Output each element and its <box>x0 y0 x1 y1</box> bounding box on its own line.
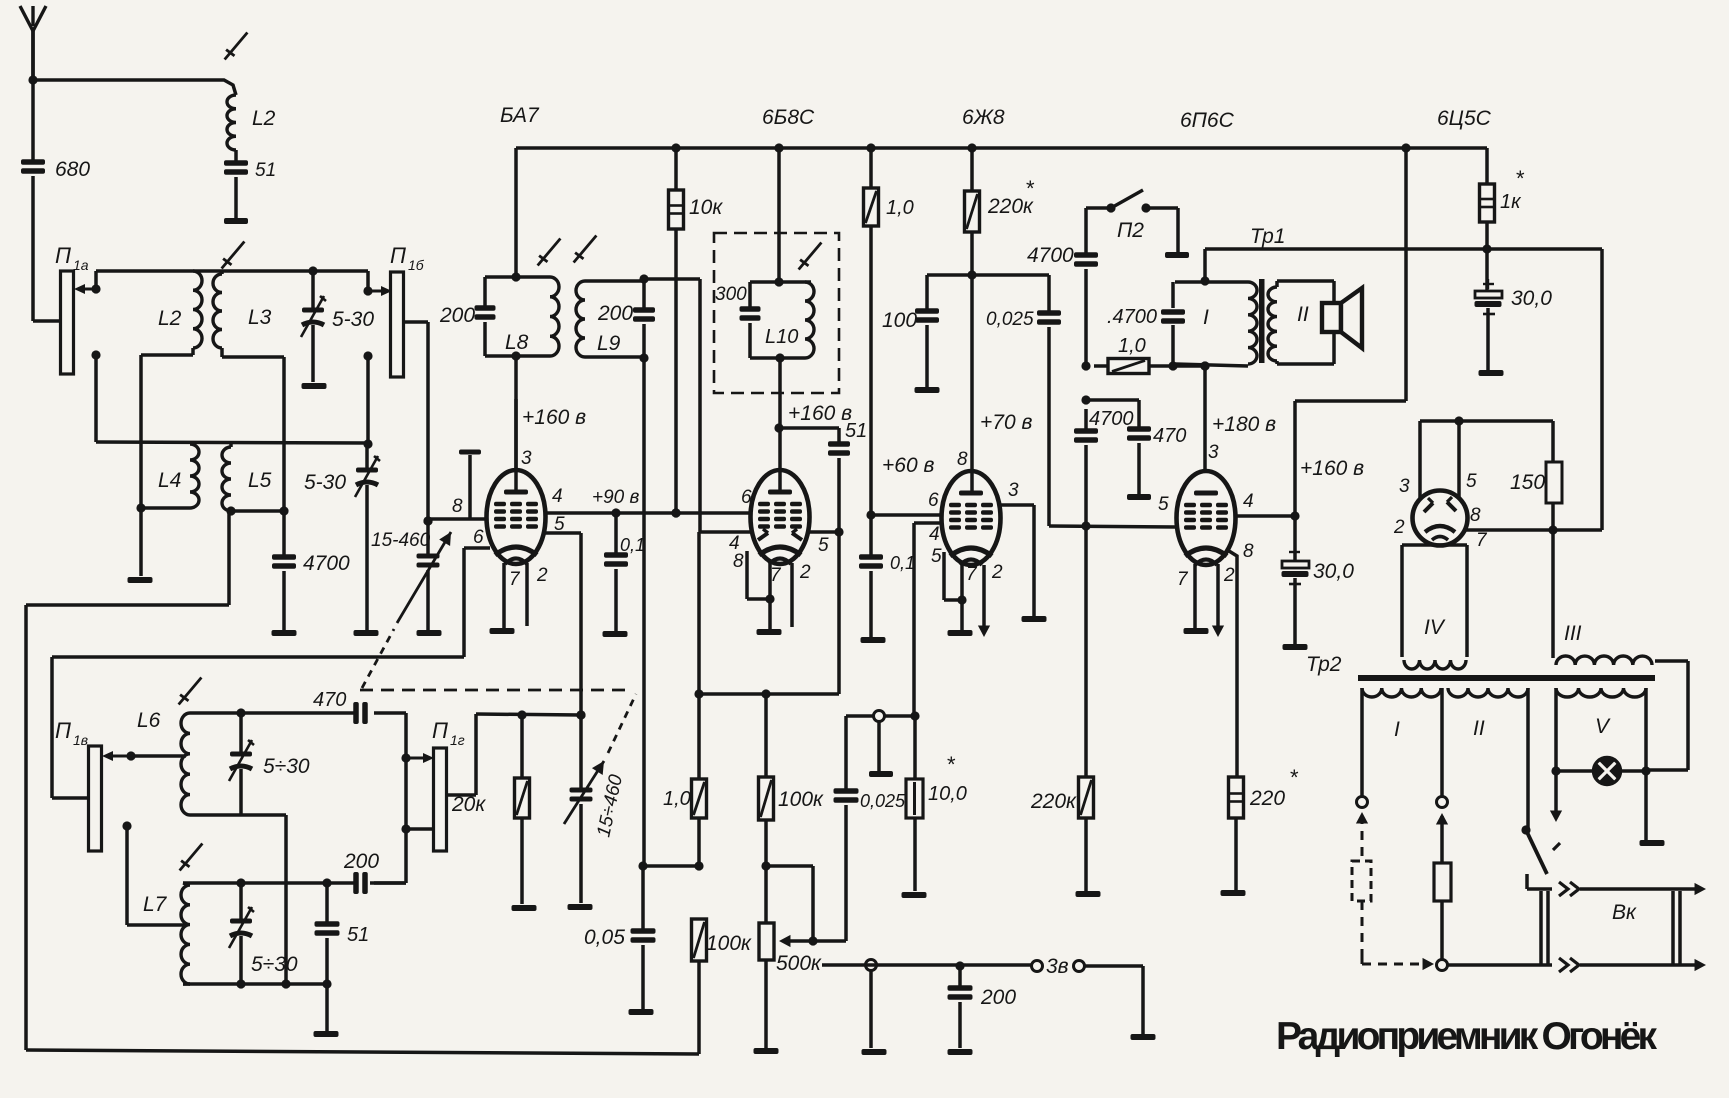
svg-text:100к: 100к <box>778 788 824 811</box>
svg-text:L10: L10 <box>765 326 798 348</box>
svg-text:L2: L2 <box>252 107 276 130</box>
svg-text:470: 470 <box>313 689 346 711</box>
svg-text:0,05: 0,05 <box>584 926 625 949</box>
svg-text:1б: 1б <box>408 257 425 273</box>
svg-text:8: 8 <box>1243 541 1254 562</box>
svg-text:*: * <box>947 752 956 777</box>
svg-text:+180 в: +180 в <box>1212 413 1276 436</box>
svg-text:5: 5 <box>818 535 829 556</box>
svg-text:1в: 1в <box>73 732 88 748</box>
svg-text:БА7: БА7 <box>500 104 540 127</box>
svg-text:V: V <box>1595 715 1611 738</box>
svg-text:L9: L9 <box>597 332 621 355</box>
svg-text:1,0: 1,0 <box>663 788 691 810</box>
svg-text:7: 7 <box>509 569 521 590</box>
svg-text:L8: L8 <box>505 331 529 354</box>
svg-text:10к: 10к <box>689 196 723 219</box>
svg-text:*: * <box>1516 166 1525 191</box>
svg-text:+60 в: +60 в <box>882 454 934 477</box>
svg-text:4700: 4700 <box>303 552 350 575</box>
svg-text:+160 в: +160 в <box>1300 457 1364 480</box>
svg-text:15÷460: 15÷460 <box>593 772 627 839</box>
svg-text:2: 2 <box>536 565 548 586</box>
svg-text:П: П <box>55 718 71 743</box>
svg-text:3: 3 <box>1399 476 1410 497</box>
svg-text:П2: П2 <box>1117 219 1144 242</box>
svg-text:20к: 20к <box>451 793 486 816</box>
svg-text:IV: IV <box>1424 616 1446 639</box>
svg-text:5: 5 <box>1158 494 1169 515</box>
svg-text:3: 3 <box>1208 442 1219 463</box>
svg-text:+70 в: +70 в <box>980 411 1032 434</box>
svg-text:51: 51 <box>255 160 276 181</box>
svg-text:150: 150 <box>1510 471 1545 494</box>
svg-text:I: I <box>1394 718 1400 741</box>
svg-text:8: 8 <box>1470 505 1481 526</box>
svg-text:3: 3 <box>1008 480 1019 501</box>
svg-text:6П6С: 6П6С <box>1180 109 1235 132</box>
svg-text:III: III <box>1564 622 1582 645</box>
svg-text:680: 680 <box>55 158 90 181</box>
svg-text:200: 200 <box>439 304 475 327</box>
svg-text:L6: L6 <box>137 709 161 732</box>
svg-text:1,0: 1,0 <box>1118 335 1146 357</box>
svg-text:5÷30: 5÷30 <box>251 953 298 976</box>
svg-text:200: 200 <box>343 850 379 873</box>
svg-text:5-30: 5-30 <box>332 308 374 331</box>
svg-text:6Ж8: 6Ж8 <box>962 106 1005 129</box>
svg-text:2: 2 <box>799 562 811 583</box>
svg-text:10,0: 10,0 <box>928 783 967 805</box>
svg-text:1,0: 1,0 <box>886 197 914 219</box>
svg-text:15-460: 15-460 <box>371 530 431 551</box>
svg-text:1г: 1г <box>450 732 465 748</box>
svg-text:8: 8 <box>452 496 463 517</box>
svg-text:2: 2 <box>1223 565 1235 586</box>
svg-text:100: 100 <box>882 309 917 332</box>
svg-text:8: 8 <box>957 449 968 470</box>
svg-text:L7: L7 <box>143 893 168 916</box>
svg-text:0,025: 0,025 <box>986 309 1034 330</box>
svg-text:4: 4 <box>1243 491 1254 512</box>
svg-text:2: 2 <box>1393 517 1405 538</box>
svg-text:Радиоприемник Огонёк: Радиоприемник Огонёк <box>1276 1015 1657 1058</box>
svg-text:*: * <box>1026 176 1035 201</box>
svg-text:L4: L4 <box>158 469 181 492</box>
svg-text:+160 в: +160 в <box>788 402 852 425</box>
svg-text:0,1: 0,1 <box>890 553 915 573</box>
svg-text:1к: 1к <box>1500 191 1522 213</box>
svg-text:6Ц5С: 6Ц5С <box>1437 107 1492 130</box>
svg-text:Вк: Вк <box>1612 901 1637 924</box>
svg-text:*: * <box>1290 765 1299 790</box>
svg-text:4: 4 <box>929 524 940 545</box>
svg-text:L5: L5 <box>248 469 272 492</box>
svg-text:500к: 500к <box>776 952 822 975</box>
svg-text:100к: 100к <box>706 932 752 955</box>
svg-text:30,0: 30,0 <box>1511 287 1552 310</box>
svg-text:470: 470 <box>1153 425 1186 447</box>
svg-text:5-30: 5-30 <box>304 471 346 494</box>
svg-text:51: 51 <box>845 420 867 442</box>
svg-text:300: 300 <box>715 284 747 305</box>
svg-text:.4700: .4700 <box>1107 306 1157 328</box>
svg-text:Тр1: Тр1 <box>1250 225 1286 248</box>
svg-text:200: 200 <box>980 986 1016 1009</box>
svg-text:5: 5 <box>1466 471 1477 492</box>
svg-text:8: 8 <box>733 551 744 572</box>
svg-text:6: 6 <box>741 487 752 508</box>
svg-text:3в: 3в <box>1046 955 1069 978</box>
svg-text:6: 6 <box>473 527 484 548</box>
svg-text:+160 в: +160 в <box>522 406 586 429</box>
svg-text:7: 7 <box>1177 569 1189 590</box>
svg-text:П: П <box>55 243 71 268</box>
svg-text:220: 220 <box>1249 787 1285 810</box>
svg-text:7: 7 <box>1476 530 1488 551</box>
svg-text:4700: 4700 <box>1027 244 1074 267</box>
svg-text:3: 3 <box>521 448 532 469</box>
svg-text:220к: 220к <box>1030 790 1077 813</box>
svg-text:30,0: 30,0 <box>1313 560 1354 583</box>
svg-text:L2: L2 <box>158 307 182 330</box>
svg-text:4700: 4700 <box>1089 408 1134 430</box>
svg-text:II: II <box>1473 717 1485 740</box>
svg-text:51: 51 <box>347 924 369 946</box>
svg-text:1а: 1а <box>73 257 89 273</box>
svg-text:5÷30: 5÷30 <box>263 755 310 778</box>
svg-text:200: 200 <box>597 302 633 325</box>
svg-text:7: 7 <box>770 565 782 586</box>
svg-text:II: II <box>1297 303 1309 326</box>
svg-text:+90 в: +90 в <box>592 487 640 508</box>
svg-text:П: П <box>390 243 406 268</box>
svg-text:П: П <box>432 718 448 743</box>
svg-text:L3: L3 <box>248 306 272 329</box>
svg-text:6: 6 <box>928 490 939 511</box>
svg-text:I: I <box>1203 306 1209 329</box>
svg-text:7: 7 <box>966 564 978 585</box>
svg-text:Тр2: Тр2 <box>1306 653 1342 676</box>
svg-text:0,025: 0,025 <box>860 791 906 811</box>
svg-text:4: 4 <box>552 486 563 507</box>
svg-text:6Б8С: 6Б8С <box>762 106 815 129</box>
svg-text:5: 5 <box>931 546 942 567</box>
svg-text:2: 2 <box>991 562 1003 583</box>
svg-text:0,1: 0,1 <box>620 535 645 555</box>
